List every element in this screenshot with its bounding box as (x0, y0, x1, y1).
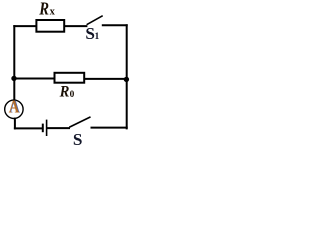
battery long plate (46, 120, 48, 135)
wire bottom-left segment (15, 127, 42, 129)
wire battery-to-switch segment (48, 127, 69, 129)
wire top-left segment (14, 25, 35, 27)
wire middle branch left (14, 78, 54, 80)
svg-text:R: R (59, 83, 70, 100)
svg-text:S: S (73, 130, 83, 149)
switch S blade (70, 117, 90, 127)
wire left edge ammeter-to-corner (14, 119, 16, 129)
resistor R0 (55, 73, 85, 83)
label A (ammeter) (9, 97, 21, 117)
wire bottom-right segment (92, 127, 127, 129)
wire top-middle segment (65, 25, 87, 27)
svg-text:R: R (38, 0, 49, 19)
wire left edge upper (13, 26, 15, 78)
svg-text:1: 1 (95, 31, 100, 42)
node right junction dot (124, 77, 129, 82)
resistor Rx (36, 20, 64, 32)
svg-text:A: A (9, 97, 20, 117)
switch S1 blade (87, 16, 102, 24)
label Rx (38, 0, 55, 19)
wire top-right segment (103, 24, 127, 26)
svg-text:0: 0 (70, 90, 75, 100)
wire left edge junction-to-ammeter (13, 79, 15, 101)
wire right edge (126, 25, 128, 128)
wire middle branch right (85, 78, 127, 80)
battery short plate (42, 125, 44, 132)
label S1 (85, 24, 99, 43)
ammeter A circle (5, 100, 23, 118)
node left junction dot (11, 76, 16, 81)
label R0 (59, 83, 75, 100)
svg-text:x: x (50, 6, 56, 17)
